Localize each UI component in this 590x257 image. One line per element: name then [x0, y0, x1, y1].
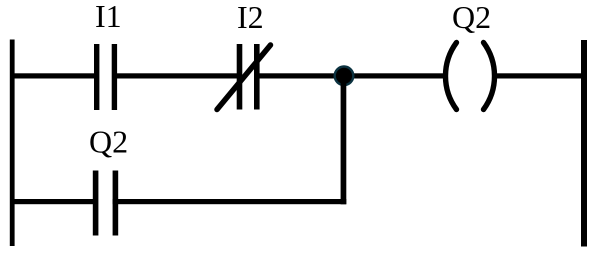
svg-text:Q2: Q2 [89, 124, 128, 160]
coil Q2: right parenthesis [484, 43, 495, 110]
wire: contact Q2 to junction drop [113, 199, 347, 204]
coil Q2: left parenthesis [445, 43, 456, 110]
contact I2 (normally closed): left bar [237, 44, 243, 110]
left power rail [10, 40, 15, 247]
wire: left rail to contact Q2 (feedback rung) [12, 199, 93, 204]
svg-text:I1: I1 [95, 0, 122, 34]
wire: contact I1 to contact I2 [117, 73, 237, 78]
contact Q2 (normally open): right bar [113, 171, 119, 236]
junction node [335, 67, 354, 86]
svg-text:I2: I2 [237, 0, 264, 35]
contact Q2 (normally open): left bar [93, 171, 99, 236]
contact I1 (normally open): right bar [112, 44, 117, 110]
svg-text:Q2: Q2 [452, 0, 491, 35]
wire: contact I2 to coil Q2 (through junction) [259, 73, 446, 78]
right power rail [581, 40, 587, 247]
contact I1 (normally open): left bar [94, 44, 99, 110]
wire: left rail to contact I1 [12, 73, 94, 78]
wire: junction drop to feedback rung [341, 76, 347, 204]
contact I2 (normally closed): right bar [254, 44, 260, 110]
wire: coil Q2 to right rail [496, 73, 584, 78]
contact I2 slash [217, 45, 271, 110]
